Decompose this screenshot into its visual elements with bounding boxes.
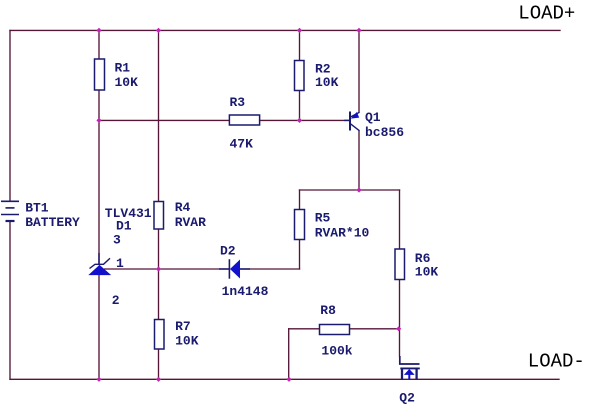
svg-text:RVAR: RVAR <box>175 215 206 230</box>
svg-text:D1: D1 <box>116 218 132 233</box>
svg-text:RVAR*10: RVAR*10 <box>315 225 370 240</box>
svg-text:10K: 10K <box>315 75 339 90</box>
svg-text:Q1: Q1 <box>365 110 381 125</box>
svg-text:10K: 10K <box>175 333 199 348</box>
svg-text:LOAD-: LOAD- <box>528 350 585 372</box>
svg-text:LOAD+: LOAD+ <box>518 2 575 24</box>
svg-text:BATTERY: BATTERY <box>25 215 80 230</box>
svg-text:D2: D2 <box>220 244 236 259</box>
svg-text:1: 1 <box>116 256 124 271</box>
svg-text:1n4148: 1n4148 <box>222 284 269 299</box>
svg-text:47K: 47K <box>230 137 254 152</box>
svg-text:3: 3 <box>113 232 121 247</box>
svg-text:100k: 100k <box>321 343 352 358</box>
svg-text:2: 2 <box>112 293 120 308</box>
svg-text:Q2: Q2 <box>399 391 415 406</box>
svg-text:bc856: bc856 <box>365 125 404 140</box>
svg-text:BT1: BT1 <box>25 201 49 216</box>
svg-text:R3: R3 <box>230 95 246 110</box>
svg-text:R4: R4 <box>175 200 191 215</box>
svg-text:10K: 10K <box>415 264 439 279</box>
svg-text:10K: 10K <box>115 75 139 90</box>
svg-text:R5: R5 <box>315 211 331 226</box>
svg-text:R1: R1 <box>115 61 131 76</box>
svg-text:R7: R7 <box>175 319 191 334</box>
svg-text:R8: R8 <box>320 303 336 318</box>
